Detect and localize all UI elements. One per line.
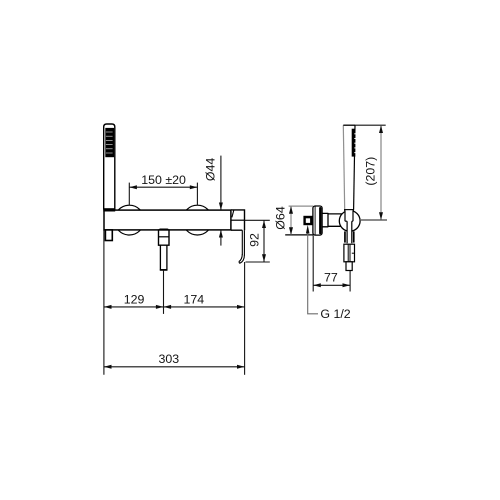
- spout divider line: [159, 236, 170, 238]
- mixer bar body: [104, 210, 231, 230]
- holder ball: [339, 211, 360, 232]
- svg-text:174: 174: [183, 292, 204, 306]
- hand shower spray strip (front): [105, 128, 114, 157]
- wall escutcheon (side): [313, 206, 322, 235]
- hand shower handle (front view): [104, 124, 115, 210]
- dim 303 arrows: [104, 365, 112, 369]
- spout lower tube: [160, 245, 167, 270]
- dim Ø44 lines: [220, 156, 222, 210]
- spray strip (side): [352, 129, 356, 157]
- hose end: [346, 262, 352, 271]
- escutcheon circle left: [114, 205, 144, 235]
- hose outlet below bar (front left): [105, 230, 112, 241]
- escutcheon flange line: [314, 206, 316, 235]
- dim Ø64 ext lines (grey): [289, 205, 313, 207]
- dim 92 arrows: [262, 220, 266, 228]
- dim Ø64 line: [290, 206, 292, 234]
- hand shower handle (side view): [343, 125, 344, 210]
- dim 150 arrows: [129, 185, 137, 189]
- G 1/2 leader line: [308, 231, 318, 314]
- lever hook tip: [239, 254, 245, 263]
- dim 150 line: [129, 186, 197, 188]
- dim 92 line: [263, 221, 265, 262]
- dim 129 arrows: [104, 305, 112, 309]
- head top edge: [343, 124, 355, 126]
- holder fork tabs: [344, 231, 346, 242]
- lever notch diagonal: [232, 210, 234, 217]
- ext lines bottom left: [103, 230, 105, 375]
- spout upper block: [159, 230, 170, 245]
- connector arm main: [328, 214, 342, 226]
- svg-text:77: 77: [324, 270, 338, 284]
- dim Ø44 arrows: [219, 203, 223, 211]
- dim (207) ext lines: [355, 124, 386, 126]
- dim Ø64 arrows: [289, 206, 293, 214]
- dim 92 ext lines: [245, 219, 270, 221]
- dim 77 arrows: [313, 283, 321, 287]
- hose nut block: [344, 244, 355, 262]
- dim 77 ext lines: [312, 235, 314, 291]
- dim 150 ext lines: [128, 183, 130, 205]
- dim 129/174 line: [104, 306, 245, 308]
- holder clamp top (side): [344, 209, 354, 211]
- escutcheon dome band: [319, 207, 321, 234]
- svg-text:(207): (207): [364, 157, 378, 186]
- svg-text:Ø44: Ø44: [204, 158, 218, 182]
- svg-text:Ø64: Ø64: [273, 206, 287, 230]
- shower holder clamp (front, black band): [103, 208, 115, 211]
- svg-text:303: 303: [158, 352, 179, 366]
- dim 77 line: [313, 284, 350, 286]
- escutcheon circle right: [183, 205, 213, 235]
- connector arm stub: [322, 213, 328, 227]
- G1/2 leader arrow: [306, 225, 310, 234]
- dim (207) line (grey): [380, 126, 382, 220]
- dim 174 arrows: [164, 305, 172, 309]
- arrowheads: [104, 125, 383, 368]
- svg-text:G 1/2: G 1/2: [320, 307, 350, 321]
- lever handle block (side profile, right end of bar): [231, 210, 245, 230]
- lever block divider: [231, 219, 245, 221]
- G1/2 nipple (black square): [303, 216, 312, 225]
- dim 303 line: [104, 366, 245, 368]
- handle tube through ball: [345, 210, 353, 221]
- lever blade: [241, 230, 243, 255]
- svg-text:150 ±20: 150 ±20: [141, 173, 186, 187]
- dim (207) arrows: [379, 125, 383, 133]
- svg-text:129: 129: [124, 292, 145, 306]
- spout dark joint under bar: [159, 229, 169, 232]
- svg-text:92: 92: [248, 233, 262, 247]
